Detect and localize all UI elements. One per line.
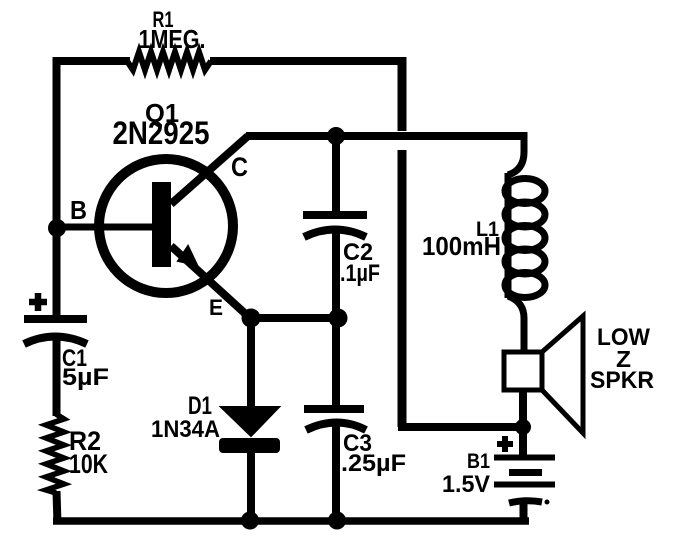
capacitor C3 — [304, 314, 406, 523]
wire top horizontal (node B to R1 to right corner) — [56, 57, 402, 65]
resistor R1 — [127, 7, 211, 70]
battery B1 — [442, 427, 555, 523]
svg-text:.25µF: .25µF — [341, 450, 406, 477]
node B junction dot — [48, 219, 66, 237]
wire right-bottom horizontal to speaker junction — [398, 423, 523, 431]
speaker SPKR — [504, 316, 654, 433]
node diode bottom junction dot — [241, 512, 259, 530]
node speaker-battery junction dot — [515, 419, 531, 435]
svg-text:C: C — [231, 152, 248, 182]
node C2 top junction dot — [327, 127, 345, 145]
capacitor C2 — [303, 132, 380, 318]
diode D1 — [151, 318, 280, 523]
node C3 bottom junction dot — [328, 512, 346, 530]
svg-text:5µF: 5µF — [62, 364, 109, 391]
wire left vertical below C1 — [53, 340, 61, 416]
svg-text:B: B — [70, 195, 87, 225]
svg-text:SPKR: SPKR — [590, 367, 654, 394]
wire bottom horizontal — [53, 517, 529, 525]
wire left vertical bottom stub — [57, 491, 58, 524]
wire emitter horizontal — [250, 314, 338, 322]
svg-text:1N34A: 1N34A — [151, 416, 220, 443]
resistor R2 — [46, 414, 108, 493]
svg-text:10K: 10K — [69, 449, 108, 479]
svg-text:1.5V: 1.5V — [442, 471, 490, 498]
svg-text:E: E — [209, 295, 223, 320]
wire collector horizontal — [246, 132, 526, 140]
capacitor C1 — [24, 293, 109, 391]
svg-text:100mH: 100mH — [422, 231, 501, 261]
svg-text:.1µF: .1µF — [340, 260, 380, 287]
transistor Q1 — [57, 98, 250, 320]
svg-text:2N2925: 2N2925 — [113, 115, 210, 151]
svg-text:B1: B1 — [467, 450, 490, 473]
wire right vertical from top corner — [398, 57, 407, 427]
svg-text:1MEG.: 1MEG. — [139, 24, 206, 54]
wire left vertical — [53, 57, 61, 315]
node E junction dot — [242, 309, 261, 328]
inductor L1 — [422, 132, 545, 355]
node C2 bottom junction dot — [329, 309, 348, 328]
